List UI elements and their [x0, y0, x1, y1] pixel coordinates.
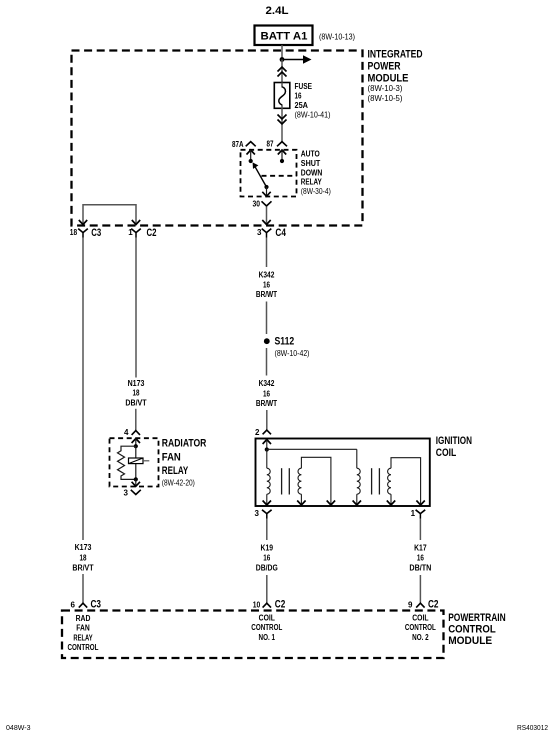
svg-text:RADIATOR: RADIATOR [162, 438, 207, 450]
wire below S112 [266, 348, 268, 376]
wire fuse to relay pin 87 [281, 108, 283, 141]
wire K173 lower segment [82, 574, 84, 603]
svg-text:16: 16 [263, 390, 270, 399]
svg-text:3: 3 [255, 509, 260, 518]
svg-text:18: 18 [133, 389, 140, 398]
wire relay 30 to connector C4 [262, 207, 270, 225]
svg-text:(8W-30-4): (8W-30-4) [301, 187, 331, 196]
label (8W-10-13) [319, 33, 355, 42]
wire K19 lower segment [266, 575, 268, 603]
double chevron (connector) below fuse [278, 115, 287, 125]
svg-text:(8W-10-42): (8W-10-42) [275, 349, 310, 358]
integrated power module box (dashed) [72, 51, 363, 226]
arrow to other circuits [282, 55, 312, 64]
svg-text:C3: C3 [91, 599, 102, 611]
radiator fan relay pin 4 [124, 428, 140, 437]
label AUTO SHUT DOWN RELAY (8W-30-4) [301, 150, 331, 197]
svg-text:INTEGRATED: INTEGRATED [368, 49, 423, 61]
svg-text:RS403012: RS403012 [517, 725, 548, 732]
svg-text:4: 4 [124, 428, 129, 437]
svg-text:CONTROL: CONTROL [405, 623, 436, 632]
svg-text:CONTROL: CONTROL [68, 643, 99, 652]
svg-text:POWER: POWER [368, 61, 401, 73]
double chevron (connector) above fuse [278, 67, 287, 77]
wire K342 from C4 [266, 238, 268, 268]
svg-text:DB/VT: DB/VT [125, 398, 146, 407]
svg-text:048W-3: 048W-3 [6, 725, 31, 732]
wire to splice S112 [266, 302, 268, 335]
svg-text:AUTO: AUTO [301, 150, 320, 159]
fan relay resistor (parallel) [118, 446, 136, 479]
svg-text:6: 6 [71, 601, 76, 610]
footer sheet number 048W-3 [6, 725, 31, 732]
fan relay bottom junction [134, 477, 138, 481]
svg-text:FAN: FAN [162, 451, 181, 463]
svg-text:16: 16 [263, 281, 270, 290]
connector C3 pin 18 [70, 227, 101, 239]
wire K17 upper segment [419, 519, 421, 541]
svg-text:3: 3 [124, 489, 129, 498]
connector C4 pin 3 [257, 227, 287, 239]
svg-text:30: 30 [253, 200, 261, 209]
coil core 1 [282, 468, 290, 494]
svg-text:CONTROL: CONTROL [448, 624, 496, 636]
PCM label COIL CONTROL NO. 1 [251, 614, 282, 642]
svg-text:POWERTRAIN: POWERTRAIN [448, 612, 506, 624]
svg-text:K19: K19 [261, 544, 274, 553]
svg-text:K342: K342 [259, 379, 275, 388]
svg-text:C4: C4 [275, 227, 286, 239]
label K342 16 BR/WT (lower) [256, 379, 277, 408]
svg-text:87A: 87A [232, 140, 244, 149]
wire N173 lower segment [135, 409, 137, 431]
coil primary winding 1 [263, 449, 271, 505]
ignition coil pin 3 [255, 509, 272, 519]
label K173 18 BR/VT [72, 543, 93, 573]
coil internal feed junction [265, 447, 269, 451]
svg-text:RELAY: RELAY [73, 633, 93, 642]
svg-text:C2: C2 [275, 599, 286, 611]
PCM connector C3 pin 6 [71, 599, 102, 611]
coil primary winding 2 [353, 449, 361, 505]
relay common 30 wire to box edge [262, 187, 270, 196]
coil internal pin 2 arrow [263, 440, 271, 450]
svg-text:87: 87 [267, 140, 274, 149]
wire K19 upper segment [266, 519, 268, 541]
svg-text:COIL: COIL [412, 614, 428, 623]
fan relay wire to pin 3 [132, 479, 140, 486]
PCM label COIL CONTROL NO. 2 [405, 614, 436, 642]
svg-text:NO. 1: NO. 1 [259, 633, 276, 642]
svg-text:2.4L: 2.4L [266, 5, 289, 17]
relay switch arm [253, 162, 269, 189]
svg-text:DOWN: DOWN [301, 168, 323, 177]
relay internal contact 87 [278, 150, 286, 163]
svg-text:C2: C2 [147, 227, 157, 239]
svg-text:BR/VT: BR/VT [72, 564, 93, 573]
label K342 16 BR/WT (upper) [256, 271, 277, 300]
svg-text:2: 2 [255, 428, 260, 437]
relay pin 87A label and chevron [232, 140, 256, 149]
svg-text:(8W-10-13): (8W-10-13) [319, 33, 355, 42]
relay internal contact 87A [247, 150, 255, 163]
svg-text:(8W-10-41): (8W-10-41) [295, 111, 331, 120]
title 2.4L [266, 5, 289, 17]
svg-text:1: 1 [411, 509, 416, 518]
wire K17 lower segment [419, 575, 421, 603]
relay pin 87 label and chevron [267, 140, 288, 149]
fuse F16 25A [274, 83, 290, 109]
PCM label RAD FAN RELAY CONTROL [68, 614, 99, 652]
svg-text:BR/WT: BR/WT [256, 290, 277, 299]
label S112 (8W-10-42) [275, 336, 310, 359]
svg-text:SHUT: SHUT [301, 159, 321, 168]
svg-text:FAN: FAN [76, 624, 90, 633]
label POWERTRAIN CONTROL MODULE [448, 612, 506, 647]
svg-text:DB/DG: DB/DG [256, 563, 278, 572]
wire junction to fuse [281, 60, 283, 83]
svg-text:C2: C2 [428, 599, 439, 611]
svg-text:N173: N173 [128, 379, 145, 388]
svg-text:(8W-10-3): (8W-10-3) [368, 84, 403, 93]
svg-text:10: 10 [253, 601, 261, 610]
svg-text:16: 16 [417, 553, 424, 562]
label RADIATOR FAN RELAY (8W-42-20) [162, 438, 207, 488]
svg-text:NO. 2: NO. 2 [412, 633, 429, 642]
svg-text:K342: K342 [259, 271, 275, 280]
label N173 18 DB/VT [125, 379, 146, 407]
svg-text:18: 18 [70, 228, 78, 237]
svg-text:MODULE: MODULE [448, 635, 492, 647]
ignition coil pin 2 chevron [255, 428, 271, 437]
fan relay coil element [129, 458, 150, 464]
fan relay coil wire (vertical) [135, 446, 137, 479]
svg-text:COIL: COIL [259, 614, 275, 623]
node B+ junction [280, 57, 285, 62]
label K17 16 DB/TN [409, 544, 431, 573]
svg-text:FUSE: FUSE [295, 82, 313, 91]
svg-text:COIL: COIL [436, 447, 457, 459]
ignition coil pin 1 [411, 509, 426, 519]
svg-text:(8W-42-20): (8W-42-20) [162, 479, 195, 488]
svg-text:16: 16 [295, 92, 302, 101]
label K19 16 DB/DG [256, 544, 278, 573]
wire K173 upper segment [82, 238, 84, 541]
svg-text:16: 16 [263, 553, 270, 562]
label FUSE 16 25A (8W-10-41) [295, 82, 331, 120]
powertrain control module box (dashed) [62, 611, 444, 659]
PCM connector C2 pin 9 [408, 599, 439, 611]
svg-text:DB/TN: DB/TN [409, 563, 431, 572]
wire BATT A1 to junction [281, 45, 283, 59]
svg-text:BATT A1: BATT A1 [261, 31, 308, 43]
svg-text:K17: K17 [414, 544, 427, 553]
svg-text:RAD: RAD [76, 614, 91, 623]
svg-text:25A: 25A [295, 101, 309, 110]
svg-text:BR/WT: BR/WT [256, 399, 277, 408]
wire to ignition coil pin 2 [266, 410, 268, 430]
connector C2 pin 1 [128, 227, 156, 239]
label IGNITION COIL [436, 435, 472, 459]
fan relay internal pin 4 arrow [132, 439, 140, 449]
wire N173 upper segment [135, 238, 137, 378]
svg-text:RELAY: RELAY [162, 465, 189, 477]
footer drawing number RS403012 [517, 725, 548, 732]
coil secondary winding 2 [387, 458, 425, 505]
ignition coil box [256, 439, 430, 507]
svg-text:3: 3 [257, 228, 262, 237]
svg-text:S112: S112 [275, 336, 295, 348]
svg-text:9: 9 [408, 601, 413, 610]
svg-text:RELAY: RELAY [301, 178, 323, 187]
fan relay pin 3 chevron [124, 489, 141, 498]
svg-text:C3: C3 [91, 227, 101, 239]
PCM connector C2 pin 10 [253, 599, 285, 611]
coil core 2 [372, 468, 380, 494]
radiator fan relay box (dashed) [110, 438, 159, 486]
coil secondary winding 1 [297, 457, 335, 505]
splice S112 [264, 338, 270, 344]
battery feed box BATT A1 [255, 26, 313, 46]
svg-text:K173: K173 [75, 543, 92, 552]
svg-text:18: 18 [80, 554, 87, 563]
svg-text:IGNITION: IGNITION [436, 435, 472, 447]
relay pin 30 label and chevron [253, 200, 272, 209]
svg-text:MODULE: MODULE [368, 73, 409, 85]
internal bus wire C3-18 to C2-1 [79, 205, 140, 225]
svg-text:CONTROL: CONTROL [251, 623, 282, 632]
coil internal feed bus [267, 448, 357, 450]
auto shut down relay box (dashed) [241, 150, 297, 197]
label INTEGRATED POWER MODULE [368, 49, 423, 103]
svg-text:(8W-10-5): (8W-10-5) [368, 94, 403, 103]
